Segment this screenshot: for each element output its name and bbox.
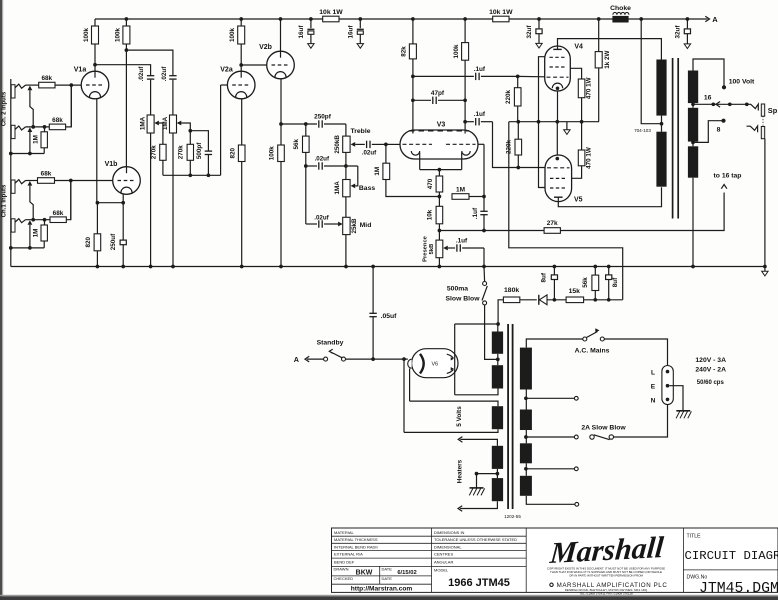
resistor 68k (Ch2 lower)	[49, 117, 65, 130]
svg-text:56k: 56k	[293, 139, 300, 150]
wire 16 ohm tap	[691, 95, 749, 108]
wire PI bias node	[509, 120, 599, 124]
wire 100 Volt tap	[693, 59, 755, 89]
capacitor 32uf (output filter)	[674, 19, 690, 49]
ground stub power tubes	[564, 122, 570, 135]
svg-text:10k 1W: 10k 1W	[489, 9, 513, 16]
svg-text:INTERNAL BEND RADII: INTERNAL BEND RADII	[334, 544, 378, 549]
wire speaker sleeve to ground rail	[764, 139, 766, 267]
svg-text:V2b: V2b	[259, 44, 272, 51]
wire Ch1 ground link	[9, 246, 44, 250]
svg-text:32uf: 32uf	[674, 25, 681, 39]
PT core	[508, 324, 512, 509]
PT heater winding upper	[458, 437, 503, 469]
wire mid pot to ground rail	[345, 235, 347, 267]
wire OT secondary to ground	[692, 178, 694, 267]
potentiometer 25kB Mid	[343, 217, 372, 234]
label Ch.1 Inputs	[1, 184, 7, 217]
PT mains winding 4	[520, 476, 579, 506]
tube V2a	[220, 67, 255, 99]
svg-text:.02uf: .02uf	[138, 66, 145, 82]
svg-text:56k: 56k	[582, 277, 589, 288]
ground rail end marker	[762, 267, 768, 276]
wire bass wiper feed	[355, 166, 358, 186]
svg-text:Slow Blow: Slow Blow	[446, 296, 481, 303]
svg-text:DATE: DATE	[382, 567, 393, 572]
svg-text:100k: 100k	[453, 44, 460, 59]
svg-text:.1uf: .1uf	[456, 238, 468, 245]
PT mains winding 1	[520, 339, 583, 410]
PT mains tap 2 to fuse	[526, 435, 578, 439]
wire 8 ohm tap	[691, 119, 725, 147]
svg-text:100 Volt: 100 Volt	[729, 79, 755, 86]
wire V2b anode to rail	[280, 19, 282, 51]
title block left column text	[334, 530, 417, 593]
jack J2 Ch2 lower	[11, 125, 25, 138]
svg-text:V3: V3	[437, 122, 446, 129]
PT mains tap 3	[526, 467, 578, 471]
svg-text:50/60 cps: 50/60 cps	[697, 380, 725, 386]
potentiometer 250kB Treble	[334, 128, 371, 154]
svg-text:V1a: V1a	[74, 67, 87, 74]
label Ch. 2 Inputs	[1, 91, 7, 126]
resistor 68k (Ch2 upper grid stopper)	[39, 75, 55, 88]
PT mains tap 1	[526, 396, 578, 400]
wire V5 beam plate to 470	[572, 166, 582, 179]
resistor 820 (V2a cathode)	[230, 145, 245, 267]
wire earth pin	[669, 386, 683, 411]
PT mains winding 2	[520, 410, 532, 444]
resistor 220k (V5 grid)	[506, 122, 522, 168]
wire standby to rectifier	[346, 357, 408, 361]
resistor 1M (Ch2 grid leak)	[32, 127, 47, 154]
net A arrow top right	[687, 15, 718, 24]
svg-text:JTM45.DGM: JTM45.DGM	[699, 581, 778, 597]
svg-text:470: 470	[427, 178, 434, 189]
tube V4 pentode	[545, 44, 583, 92]
wire Ch1 volume ground	[172, 133, 174, 267]
capacitor .1uf (coupling to V4)	[413, 66, 520, 80]
PT heater centre tap	[475, 469, 500, 488]
svg-text:100k: 100k	[229, 28, 236, 43]
potentiometer 5kB Presence	[422, 231, 443, 267]
junction dots on top rail	[125, 17, 690, 21]
svg-text:25kB: 25kB	[351, 218, 358, 234]
wire J4 arrow to ground link	[28, 225, 32, 250]
wire J2 to 68k	[26, 126, 50, 128]
capacitor .02uf (mid cap)	[306, 166, 338, 228]
pot Treble wiper	[351, 142, 365, 147]
svg-text:Ch. 2 Inputs: Ch. 2 Inputs	[1, 91, 7, 126]
wire V2a cathode down	[241, 99, 243, 146]
PT HT winding lower	[492, 365, 503, 388]
title block grid	[332, 528, 778, 592]
tube V1b	[105, 161, 141, 194]
speaker jack upper contact	[747, 104, 759, 110]
svg-text:16uf: 16uf	[347, 25, 354, 39]
PT mains winding 3	[520, 443, 532, 476]
svg-text:A.C. Mains: A.C. Mains	[575, 348, 610, 355]
ground heater CT	[469, 488, 484, 496]
label 1202-55	[504, 514, 521, 519]
wire V3 right grid	[478, 144, 484, 196]
svg-text:A: A	[294, 355, 299, 364]
capacitor 250uf (V1 cathode bypass)	[110, 203, 126, 267]
OT core	[673, 58, 679, 219]
jack J3 Ch1 upper	[11, 180, 25, 194]
svg-text:N: N	[651, 397, 656, 404]
wire V1b anode branch to ch1 coupling cap	[126, 50, 172, 75]
fuse 500ma	[446, 267, 488, 305]
svg-text:250kB: 250kB	[334, 135, 341, 154]
svg-text:27k: 27k	[547, 220, 558, 227]
pot Mid wiper arrow	[338, 222, 343, 227]
resistor 100k (V1b anode load)	[114, 19, 130, 167]
wire V5 cathode up	[556, 122, 558, 155]
capacitor .02uf (Ch2 coupling)	[138, 66, 154, 115]
OT primary winding lower	[656, 132, 666, 187]
wire left ground bus vertical	[10, 79, 12, 267]
scan dark edge strip bottom	[0, 596, 778, 600]
wire main ground rail	[11, 266, 765, 268]
fuse 2A slow blow	[581, 425, 626, 440]
capacitor .1uf (NFB)	[472, 197, 488, 233]
svg-text:Ch.1 Inputs: Ch.1 Inputs	[1, 184, 7, 217]
svg-text:DATE: DATE	[382, 576, 393, 581]
choke	[610, 5, 631, 23]
svg-text:MATERIAL THICKNESS: MATERIAL THICKNESS	[334, 537, 378, 542]
svg-text:100k: 100k	[269, 146, 276, 161]
label 704-103	[634, 128, 651, 133]
svg-text:10k 1W: 10k 1W	[319, 9, 343, 16]
wire V2a anode to V2b grid	[241, 64, 267, 66]
wire V2b cathode down	[279, 79, 283, 145]
svg-text:68k: 68k	[52, 117, 63, 124]
wire V6 heater drops	[404, 359, 410, 432]
svg-text:Standby: Standby	[317, 340, 344, 347]
net A arrow standby	[294, 355, 324, 364]
svg-text:1202-55: 1202-55	[504, 514, 521, 519]
OT secondary winding 3	[688, 146, 698, 177]
wire NFB bus	[438, 229, 545, 233]
resistor 470 1W (V4)	[578, 77, 592, 121]
svg-text:68k: 68k	[41, 75, 52, 82]
wire V2a grid	[221, 84, 228, 86]
svg-text:DIMENSIONAL: DIMENSIONAL	[434, 544, 462, 549]
svg-text:MODEL: MODEL	[434, 568, 449, 573]
svg-text:BEND DEF: BEND DEF	[334, 559, 355, 564]
capacitor .1uf (coupling to V5)	[465, 111, 545, 169]
jack J1 tip arrow	[28, 86, 33, 91]
svg-text:8uf: 8uf	[612, 277, 619, 287]
resistor 180k (bias feed)	[496, 287, 520, 326]
wire bass bottom to mid top	[345, 197, 347, 218]
wire fuse to N pin	[613, 405, 667, 438]
pot 1MA Ch2 wiper	[154, 121, 163, 145]
svg-text:8uf: 8uf	[540, 272, 547, 282]
svg-text:250uf: 250uf	[110, 233, 117, 250]
resistor 220k (V4 grid)	[505, 76, 521, 121]
svg-text:DRAWN: DRAWN	[334, 567, 349, 572]
resistor 270k (Ch2 mixer)	[151, 144, 166, 175]
svg-text:Sp: Sp	[768, 106, 778, 115]
svg-text:EXTERNAL R/A: EXTERNAL R/A	[334, 552, 363, 557]
svg-text:820: 820	[85, 237, 92, 248]
capacitor 8uf (bias filter 1)	[540, 267, 557, 300]
resistor 100k (V2a anode load)	[229, 19, 245, 71]
svg-text:E: E	[651, 384, 656, 391]
wire J3 to 68k	[26, 180, 38, 182]
svg-text:Marshall: Marshall	[548, 530, 666, 570]
svg-text:1M: 1M	[32, 135, 39, 144]
wire bias feed down	[509, 122, 623, 300]
svg-text:82k: 82k	[401, 46, 408, 57]
wire V4 grid entry	[518, 75, 545, 77]
speaker jack lower contact	[747, 126, 758, 132]
resistor 1M (Ch1 grid leak)	[32, 220, 47, 248]
svg-text:TITLE: TITLE	[687, 534, 702, 540]
svg-text:16: 16	[704, 95, 712, 102]
resistor 15k (bias)	[566, 288, 584, 303]
svg-text:DWG.No: DWG.No	[687, 575, 708, 581]
wire V4 beam plate to 470	[570, 68, 581, 79]
wire J2 arrow to ground link	[28, 132, 32, 155]
svg-text:.02uf: .02uf	[315, 155, 330, 162]
svg-text:1k 2W: 1k 2W	[604, 51, 611, 69]
svg-text:Presence: Presence	[422, 235, 428, 262]
svg-text:6/15/02: 6/15/02	[397, 570, 416, 576]
svg-text:1MA: 1MA	[139, 116, 146, 130]
svg-text:1966 JTM45: 1966 JTM45	[448, 577, 510, 589]
svg-text:A: A	[712, 15, 718, 24]
svg-text:15k: 15k	[569, 288, 581, 295]
resistor 100k (V3 right anode load)	[453, 19, 469, 134]
svg-text:68k: 68k	[53, 210, 64, 217]
svg-text:.1uf: .1uf	[472, 207, 479, 219]
wire 68k up to grid node	[43, 181, 71, 222]
wire shorting link J1 to J2	[30, 90, 35, 129]
capacitor .02uf (Ch1 coupling)	[161, 66, 176, 115]
svg-text:Bass: Bass	[359, 185, 375, 192]
wire V1a anode to coupling cap	[95, 65, 151, 76]
title cell text	[685, 534, 778, 598]
title block dimensions column text	[434, 530, 517, 589]
svg-text:BKW: BKW	[356, 570, 373, 577]
svg-text:10k: 10k	[427, 209, 434, 220]
capacitor .1uf (presence)	[456, 238, 484, 267]
pot Presence wiper	[443, 246, 455, 251]
tube V6 rectifier	[408, 349, 458, 378]
capacitor 32uf (screen filter)	[526, 19, 542, 48]
svg-text:470 1W: 470 1W	[586, 77, 593, 99]
label Heaters	[457, 459, 464, 483]
svg-text:V2a: V2a	[220, 67, 233, 74]
svg-text:500ma: 500ma	[447, 286, 468, 293]
switch A.C. Mains	[575, 328, 610, 354]
svg-text:47pf: 47pf	[431, 90, 445, 97]
jack J4 Ch1 lower	[11, 219, 25, 232]
svg-text:MATERIAL: MATERIAL	[334, 530, 354, 535]
svg-text:DIMENSIONS IN: DIMENSIONS IN	[434, 530, 465, 535]
potentiometer 1MA (Ch2 volume)	[139, 115, 154, 133]
svg-text:1M: 1M	[32, 229, 39, 238]
jack J4 tip arrow	[28, 220, 33, 225]
PT HT winding upper	[492, 324, 503, 365]
resistor 10k (tail to presence)	[427, 197, 443, 231]
svg-text:.02uf: .02uf	[161, 66, 168, 82]
svg-text:68k: 68k	[41, 171, 52, 178]
wire treble bottom to bass top	[345, 152, 347, 179]
resistor 100k (V2b cathode follower)	[269, 145, 285, 267]
wire V1a grid node down to lower input	[70, 85, 72, 127]
svg-text:.02uf: .02uf	[362, 150, 377, 157]
OT primary centre tap	[641, 19, 663, 132]
capacitor .02uf (treble wiper to PI)	[362, 141, 388, 157]
jack J2 tip arrow	[28, 127, 33, 132]
label 5 Volts	[456, 406, 463, 427]
svg-text:32uf: 32uf	[526, 25, 533, 39]
svg-text:220k: 220k	[505, 90, 512, 105]
resistor 1M (V3 grid leak)	[374, 144, 440, 196]
tube V5 pentode	[545, 155, 583, 204]
tube V3 envelope	[400, 122, 478, 160]
OT primary winding upper	[656, 60, 666, 116]
PT heater winding lower	[458, 478, 503, 511]
wire Ch2 volume ground	[150, 133, 152, 267]
svg-text:CENTRES: CENTRES	[434, 552, 453, 557]
wire cathode follower to tone stack	[281, 122, 317, 126]
wire V1b grid node down	[70, 181, 72, 220]
svg-text:.02uf: .02uf	[314, 215, 329, 222]
capacitor .05uf (standby)	[369, 267, 397, 359]
potentiometer 1MA (Ch1 volume)	[162, 115, 177, 133]
wire V1a cathode down	[96, 99, 98, 203]
svg-text:L: L	[651, 370, 655, 377]
PT 5V winding	[404, 401, 503, 432]
svg-text:Mid: Mid	[360, 222, 372, 229]
pot 1MA Ch1 wiper	[177, 121, 192, 145]
svg-text:270k: 270k	[151, 145, 158, 160]
wire V1b cathode down	[122, 194, 124, 203]
svg-text:OR IN PART) WITHOUT WRITTEN PE: OR IN PART) WITHOUT WRITTEN PERMISSION F…	[569, 573, 643, 577]
wire 68k to V1a grid	[55, 83, 81, 87]
svg-text:120V - 3A: 120V - 3A	[695, 357, 726, 364]
svg-text:250pf: 250pf	[314, 113, 332, 120]
svg-text:.1uf: .1uf	[474, 111, 486, 118]
OT secondary winding 2	[688, 108, 698, 142]
jack J1 Ch2 upper	[11, 84, 25, 98]
resistor 10k 1W (second dropper)	[489, 9, 513, 22]
potentiometer 1MA Bass	[334, 180, 375, 197]
svg-text:100k: 100k	[114, 28, 121, 43]
scan dark edge strip left	[0, 0, 2, 600]
svg-text:Choke: Choke	[610, 5, 631, 12]
svg-text:1M: 1M	[374, 167, 381, 176]
svg-text:240V - 2A: 240V - 2A	[695, 367, 726, 374]
Marshall copyright small print	[547, 567, 668, 596]
svg-text:1MA: 1MA	[162, 116, 169, 130]
junction V3 tail node	[438, 195, 442, 199]
resistor 470 (V3 cathode)	[427, 170, 443, 197]
svg-text:.05uf: .05uf	[381, 313, 398, 320]
junction V1a anode	[93, 63, 97, 67]
diode bias rectifier	[520, 295, 566, 305]
resistor 470 1W (V5)	[578, 122, 592, 169]
wire mixer node to V2a grid	[163, 85, 221, 177]
resistor 820 (V1 cathode)	[85, 203, 101, 267]
wire tail 1M right	[469, 195, 486, 199]
16 tap selector arrow	[716, 102, 720, 108]
svg-text:820: 820	[230, 147, 237, 158]
capacitor 16uf (first filter)	[298, 19, 315, 48]
wire treble cap corner down	[345, 124, 347, 136]
svg-text:16uf: 16uf	[298, 25, 305, 39]
svg-text:1M: 1M	[456, 186, 465, 193]
wire V4 cathode	[557, 91, 559, 122]
label mains ratings	[695, 357, 726, 386]
svg-text:5 Volts: 5 Volts	[456, 406, 463, 427]
resistor 10k 1W (first dropper)	[319, 9, 343, 22]
svg-text:1MA: 1MA	[334, 181, 341, 195]
wire J4 to 68k	[26, 219, 51, 221]
wire cathode link	[96, 201, 125, 205]
svg-text:470 1W: 470 1W	[586, 147, 593, 169]
svg-text:V4: V4	[574, 44, 583, 51]
resistor 68k (Ch1 lower)	[50, 210, 66, 223]
speaker jack body	[761, 104, 764, 139]
resistor 100k (V1a anode load)	[83, 19, 99, 71]
wire bias node	[553, 298, 623, 302]
wire V3 cathodes join	[420, 152, 462, 171]
wire V4 screen	[539, 57, 545, 122]
junction dots ground rail	[96, 265, 767, 269]
capacitor 47pf (PI feedback)	[413, 90, 465, 104]
resistor 56k (tone slope)	[293, 124, 309, 166]
svg-text:http://Marstran.com: http://Marstran.com	[351, 586, 413, 593]
resistor 68k (Ch1 upper)	[38, 171, 55, 184]
svg-text:TOLERANCE UNLESS OTHERWISE ST: TOLERANCE UNLESS OTHERWISE STATED	[434, 537, 517, 542]
resistor 1k 2W (screen feed)	[595, 19, 611, 122]
svg-text:270k: 270k	[178, 145, 185, 160]
wire top B+ rail	[95, 18, 687, 20]
capacitor 500pf (bright)	[190, 131, 212, 176]
mains connector LEN	[651, 366, 674, 405]
svg-text:8: 8	[717, 126, 721, 133]
svg-text:CIRCUIT DIAGR: CIRCUIT DIAGR	[685, 549, 778, 563]
capacitor 8uf (bias filter 2)	[606, 267, 619, 300]
label Sp	[768, 106, 778, 115]
wire J1 to 68k	[26, 84, 39, 86]
svg-text:V5: V5	[574, 197, 583, 204]
svg-text:Heaters: Heaters	[457, 459, 464, 483]
wire fuse to HT centre tap	[485, 305, 498, 359]
wire V6 plates bus	[455, 324, 498, 395]
wire V5 anode to OT	[558, 187, 661, 206]
capacitor 250pf (treble cap)	[314, 113, 346, 127]
standby switch	[317, 340, 346, 362]
resistor 56k (bias bleed)	[582, 267, 599, 300]
svg-text:to 16 tap: to 16 tap	[714, 173, 742, 180]
wire mains switch to L pin	[604, 339, 667, 365]
resistor 82k (V3 left anode load)	[401, 19, 417, 134]
wire Ch2 ground link	[9, 152, 44, 156]
Marshall logo	[548, 530, 666, 570]
capacitor 16uf (second filter)	[347, 19, 364, 48]
wire shorting link J3 to J4	[30, 186, 35, 222]
wire 68k to V1b grid	[55, 179, 113, 183]
svg-text:V6: V6	[432, 362, 439, 368]
svg-text:ANGULAR: ANGULAR	[434, 559, 453, 564]
